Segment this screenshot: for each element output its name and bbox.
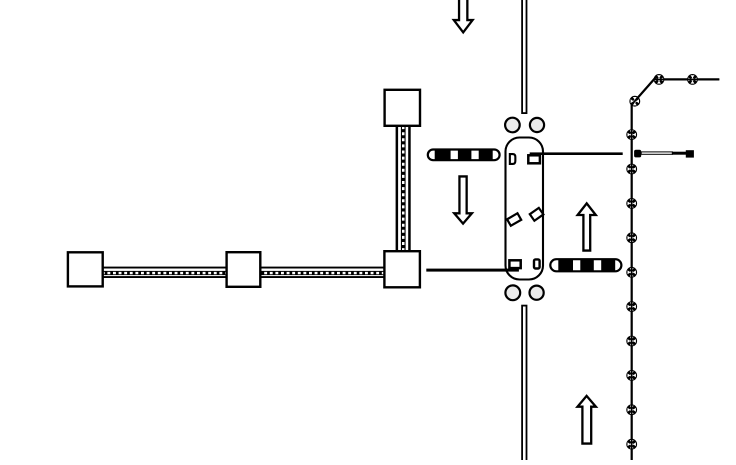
post P7 xyxy=(626,232,637,243)
post P9 xyxy=(626,301,637,312)
stop line A (right of island) xyxy=(530,152,623,155)
road upper segment (double line) xyxy=(522,0,526,113)
bus / island body xyxy=(506,138,544,280)
vertical railroad track xyxy=(396,120,411,256)
post P13 xyxy=(626,439,637,450)
gate arm (outlined section) xyxy=(641,152,672,154)
gate arm (solid section) xyxy=(672,152,687,155)
arrow A4 (up, bottom right) xyxy=(578,396,596,444)
post P11 xyxy=(626,370,637,381)
horizontal railroad track xyxy=(85,267,402,278)
station square S3 (bottom of vertical track) xyxy=(384,251,420,287)
arrow A3 (up, middle right) xyxy=(578,203,596,250)
fence wire diagonal xyxy=(632,78,656,105)
wheel circle bottom-left xyxy=(505,285,520,300)
rect (bottom-left) xyxy=(509,260,520,268)
rotated seat (left diamond) xyxy=(507,213,521,225)
station square S0 (top) xyxy=(385,90,420,126)
fence wire overlay thin (through posts) xyxy=(632,78,720,461)
post P5 xyxy=(626,164,637,175)
gate arm pivot block xyxy=(634,150,641,158)
stop line B (lower-left of island) xyxy=(426,269,519,272)
wheel circle top-left xyxy=(505,118,520,133)
rotated seat (right diamond) xyxy=(530,208,544,221)
station square S1 (left) xyxy=(68,252,103,286)
arrow A1 (down, top) xyxy=(454,0,473,32)
small square (bottom-right) xyxy=(534,259,540,268)
gate counterweight xyxy=(686,150,694,157)
post P10 xyxy=(626,336,637,347)
wheel circle top-right xyxy=(530,118,544,132)
crossing gate (upper left, striped) xyxy=(428,149,500,161)
post P6 xyxy=(626,198,637,209)
crossing gate (lower right, striped) xyxy=(550,259,621,272)
post P8 xyxy=(626,267,637,278)
post P1 (top horizontal) xyxy=(654,74,665,85)
seat (top-left, D shape) xyxy=(510,154,515,164)
wheel circle bottom-right xyxy=(530,286,544,300)
station square S2 (middle) xyxy=(227,252,261,287)
fence wire top horizontal xyxy=(654,78,719,80)
post P4 xyxy=(626,129,637,140)
road lower segment (double line) xyxy=(522,306,526,465)
driver box (top-right rect) xyxy=(528,155,540,163)
fence wire vertical xyxy=(631,104,633,461)
post P3 (on diagonal) xyxy=(629,96,640,107)
arrow A2 (down, middle) xyxy=(454,176,472,223)
post P12 xyxy=(626,404,637,415)
post P2 (top horizontal) xyxy=(687,74,698,85)
